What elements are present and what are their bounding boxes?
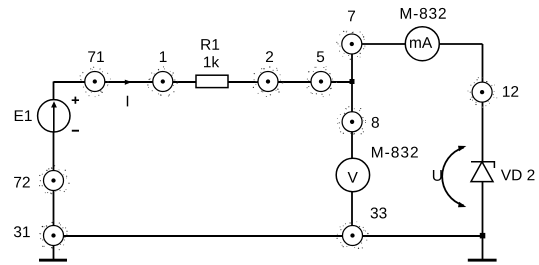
label 1k value <box>204 56 219 67</box>
node 8 <box>337 106 366 134</box>
label M-832 ammeter <box>401 8 446 19</box>
diode VD2 <box>471 162 494 182</box>
node 2 <box>253 66 284 97</box>
label VD2 <box>501 169 535 180</box>
label 12 <box>503 86 518 97</box>
current arrow I <box>125 80 132 85</box>
label I <box>127 96 128 107</box>
label 71 <box>88 51 104 62</box>
wire left vertical through E1, nodes 72 and 31, to ground <box>53 82 55 260</box>
wire top horizontal from E1 corner to junction A <box>54 81 353 83</box>
resistor R1 <box>196 75 228 87</box>
voltage source E1 <box>38 100 70 132</box>
wire node 7 to ammeter <box>352 43 406 45</box>
wire right vertical through node 12 and VD2 to ground <box>482 44 484 259</box>
label R1 <box>201 39 219 50</box>
junction B <box>480 233 486 239</box>
node 5 <box>307 66 338 97</box>
label 7 <box>348 11 355 22</box>
node 33 <box>336 221 368 249</box>
node 12 <box>468 77 498 108</box>
label 8 <box>372 117 379 128</box>
polarity minus of E1 <box>72 130 79 132</box>
node 7 <box>336 31 365 60</box>
label 2 <box>266 51 273 62</box>
label U <box>433 170 442 181</box>
wire ammeter to top-right corner <box>439 43 482 45</box>
label M-832 voltmeter <box>372 147 418 158</box>
ground left <box>39 259 67 262</box>
node 31 <box>39 220 67 250</box>
ammeter mA (M-832) <box>405 27 439 61</box>
ground right <box>468 259 497 262</box>
voltmeter V (M-832) <box>336 158 369 191</box>
node 72 <box>39 165 70 194</box>
label 31 <box>14 226 30 237</box>
wire middle vertical through node 8 and voltmeter <box>351 82 353 236</box>
polarity plus of E1 <box>72 97 79 104</box>
label 1 <box>160 51 167 62</box>
voltage arc U across VD2 <box>442 146 466 207</box>
wire junction A up to node 7 <box>351 44 353 82</box>
node 71 <box>80 67 111 98</box>
label 72 <box>14 177 30 188</box>
junction A <box>350 79 355 84</box>
label 5 <box>317 51 324 62</box>
label 33 <box>371 207 387 218</box>
node 1 <box>147 66 178 96</box>
wire bottom horizontal from node 31 to junction B <box>54 235 483 237</box>
label E1 <box>15 110 32 121</box>
